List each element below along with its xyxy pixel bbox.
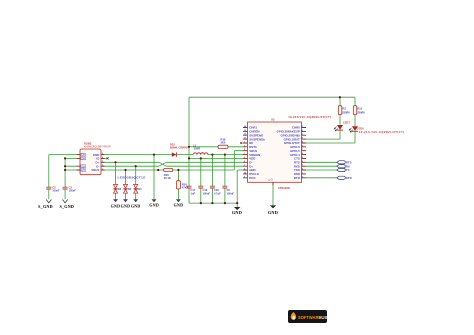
svg-text:LESD5D5QCT1G: LESD5D5QCT1G xyxy=(118,176,146,180)
svg-text:23: 23 xyxy=(301,126,303,128)
svg-text:D4: D4 xyxy=(138,187,142,191)
svg-text:TX: TX xyxy=(346,168,350,172)
svg-text:GND: GND xyxy=(149,203,159,208)
svg-text:7: 7 xyxy=(244,153,245,155)
svg-text:EH: EH xyxy=(81,165,85,168)
svg-text:10: 10 xyxy=(301,176,303,178)
svg-text:EH: EH xyxy=(81,169,85,172)
svg-text:PCO: PCO xyxy=(249,176,256,180)
svg-text:12: 12 xyxy=(301,169,303,171)
svg-text:29: 29 xyxy=(268,180,270,182)
svg-text:GND: GND xyxy=(268,210,278,215)
svg-text:VBUS: VBUS xyxy=(91,168,99,172)
svg-text:100nF: 100nF xyxy=(227,192,235,196)
svg-text:R15: R15 xyxy=(357,107,362,111)
svg-text:15: 15 xyxy=(301,157,303,159)
svg-text:19: 19 xyxy=(301,142,303,144)
svg-text:3: 3 xyxy=(102,161,103,163)
svg-text:20: 20 xyxy=(301,138,303,140)
svg-text:GND: GND xyxy=(131,203,141,208)
svg-text:5: 5 xyxy=(102,153,103,155)
svg-text:220R0: 220R0 xyxy=(342,110,350,114)
svg-text:EH: EH xyxy=(81,154,85,157)
svg-text:D3: D3 xyxy=(128,187,132,191)
svg-text:6: 6 xyxy=(244,157,245,159)
svg-text:GND: GND xyxy=(174,203,184,208)
svg-text:220R0: 220R0 xyxy=(357,110,365,114)
svg-text:22: 22 xyxy=(301,130,303,132)
svg-text:5: 5 xyxy=(244,169,245,171)
svg-text:18: 18 xyxy=(301,145,303,147)
svg-text:U2: U2 xyxy=(271,118,275,122)
svg-text:47K5: 47K5 xyxy=(182,186,189,190)
svg-text:1: 1 xyxy=(244,142,245,144)
svg-text:21: 21 xyxy=(301,134,303,136)
svg-text:8: 8 xyxy=(244,149,245,151)
svg-text:27: 27 xyxy=(244,138,246,140)
svg-text:26: 26 xyxy=(244,134,246,136)
svg-text:HUB: HUB xyxy=(319,315,328,320)
svg-text:3: 3 xyxy=(244,165,245,167)
svg-text:2: 2 xyxy=(102,165,103,167)
svg-text:G: G xyxy=(270,178,272,182)
svg-text:13: 13 xyxy=(301,165,303,167)
svg-text:S_GND: S_GND xyxy=(38,204,53,209)
svg-text:100nF: 100nF xyxy=(69,190,77,193)
svg-text:LED7: LED7 xyxy=(343,120,350,124)
svg-text:CP2102N: CP2102N xyxy=(278,186,290,190)
svg-text:B5M4_C05R42: B5M4_C05R42 xyxy=(170,145,188,149)
svg-text:22.1K: 22.1K xyxy=(164,176,171,180)
svg-text:19-213-Y2C-CQ2R2L/3T(CY): 19-213-Y2C-CQ2R2L/3T(CY) xyxy=(359,130,404,134)
svg-text:GND: GND xyxy=(232,210,242,215)
svg-text:R3: R3 xyxy=(342,107,346,111)
svg-text:2K0: 2K0 xyxy=(221,141,226,145)
svg-text:19-213/Y2C-CQ2R2L/3T(CY): 19-213/Y2C-CQ2R2L/3T(CY) xyxy=(288,115,331,119)
svg-text:GND: GND xyxy=(111,203,121,208)
svg-text:1uF: 1uF xyxy=(191,192,196,196)
svg-text:9: 9 xyxy=(244,176,245,178)
svg-text:DTR: DTR xyxy=(346,176,353,180)
svg-text:S_GND: S_GND xyxy=(59,204,74,209)
svg-text:11: 11 xyxy=(301,172,303,174)
svg-text:2: 2 xyxy=(244,145,245,147)
svg-text:16: 16 xyxy=(301,153,303,155)
svg-text:28: 28 xyxy=(244,172,246,174)
svg-text:100nF: 100nF xyxy=(52,190,60,193)
svg-text:KH-MICRO-SMT-9R-5P: KH-MICRO-SMT-9R-5P xyxy=(84,146,111,149)
svg-text:100R: 100R xyxy=(194,147,200,151)
svg-text:25: 25 xyxy=(244,130,246,132)
svg-text:17: 17 xyxy=(301,149,303,151)
svg-text:EH: EH xyxy=(81,158,85,161)
svg-text:1: 1 xyxy=(102,168,103,170)
svg-text:100nF: 100nF xyxy=(203,192,211,196)
svg-text:D2: D2 xyxy=(118,187,122,191)
svg-text:DTR: DTR xyxy=(294,176,301,180)
svg-text:4.7uF: 4.7uF xyxy=(214,192,221,196)
svg-text:GND: GND xyxy=(121,203,131,208)
